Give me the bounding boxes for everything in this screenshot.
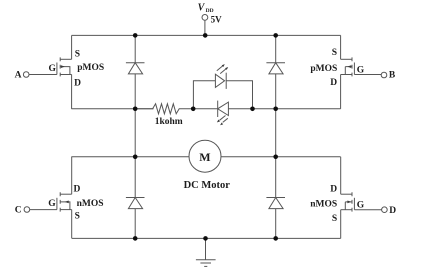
- svg-text:DC Motor: DC Motor: [184, 180, 231, 191]
- label nMOS (left): [77, 199, 104, 209]
- label S (right pMOS): [332, 48, 337, 58]
- wire: gate C to left nMOS: [30, 209, 57, 211]
- label nMOS (right): [310, 199, 337, 209]
- transistor Q1 left pMOS: channel dashes: [59, 57, 61, 76]
- transistor Q1 left pMOS: drain lead: [60, 74, 71, 76]
- transistor Q1 left pMOS: source lead: [60, 58, 71, 60]
- wire: left nMOS drain up to motor rail: [71, 157, 73, 194]
- wire: left pMOS drain down to upper-mid rail: [71, 75, 73, 109]
- transistor Q4 right nMOS: bulk lead with arrow: [345, 201, 352, 210]
- transistor Q1 left pMOS: bulk lead with arrow: [60, 65, 70, 74]
- svg-text:pMOS: pMOS: [310, 64, 337, 74]
- label D (terminal): [389, 206, 396, 216]
- label pMOS (right): [310, 64, 337, 74]
- transistor Q2 left nMOS: channel dashes: [59, 192, 61, 211]
- wire: right branch vertical (top rail to upper diode): [275, 35, 277, 62]
- svg-text:5V: 5V: [211, 14, 223, 24]
- svg-text:B: B: [389, 71, 396, 81]
- wire: bottom ground rail: [72, 237, 341, 239]
- ground symbol: [196, 238, 216, 266]
- label D (right nMOS): [330, 184, 337, 194]
- transistor Q4 right nMOS: channel dashes: [351, 192, 353, 211]
- label D (left pMOS): [74, 79, 81, 89]
- transistor Q2 left nMOS: bulk lead with arrow: [60, 201, 70, 210]
- label B: [389, 71, 396, 81]
- svg-text:S: S: [332, 214, 337, 224]
- svg-text:C: C: [15, 206, 22, 216]
- wire: left branch vertical (top rail to upper diode): [134, 35, 136, 62]
- diode D3 (lower left flyback diode): [126, 198, 145, 209]
- VDD terminal (open circle): [202, 15, 208, 21]
- transistor Q3 right pMOS: drain lead: [341, 74, 352, 76]
- label VDD: [198, 3, 214, 14]
- svg-text:S: S: [75, 49, 80, 59]
- svg-text:D: D: [74, 79, 81, 89]
- label 5V: [211, 14, 223, 24]
- transistor Q4 right nMOS: source lead: [341, 209, 352, 211]
- svg-text:1kohm: 1kohm: [155, 117, 183, 127]
- label G (right pMOS): [357, 65, 365, 75]
- svg-text:G: G: [48, 199, 56, 209]
- svg-text:G: G: [357, 65, 365, 75]
- svg-text:DD: DD: [206, 8, 214, 14]
- wire: left branch vertical (motor rail to lower diode): [134, 157, 136, 198]
- junction dot: VDD on top rail: [203, 33, 208, 38]
- wire: gate A to left pMOS: [29, 74, 57, 76]
- transistor Q4 right nMOS: gate plate: [353, 198, 355, 210]
- label 1kohm: [155, 117, 183, 127]
- transistor Q1 left pMOS: gate plate: [56, 63, 58, 75]
- junction dot: bottom rail right branch: [273, 236, 278, 241]
- LED LED2 (bottom, pointing left, inline): [193, 101, 252, 126]
- transistor Q3 right pMOS: source lead: [341, 58, 352, 60]
- diode D4 (lower right flyback diode): [266, 198, 285, 209]
- wire: right nMOS drain up to motor rail: [340, 157, 342, 194]
- wire: left branch vertical (upper diode to upper-mid rail): [134, 74, 136, 109]
- transistor Q4 right nMOS: drain lead: [341, 193, 352, 195]
- wire: top VDD rail: [72, 34, 341, 36]
- junction dot: motor rail left branch: [133, 155, 138, 160]
- terminal D (open circle): [382, 207, 388, 213]
- diode D2 (upper right flyback diode): [266, 63, 285, 74]
- diode D1 (upper left flyback diode): [126, 63, 145, 74]
- svg-text:D: D: [330, 184, 337, 194]
- transistor Q2 left nMOS: drain lead: [60, 193, 71, 195]
- junction dot: bottom rail ground: [203, 236, 208, 241]
- label S (left nMOS): [75, 211, 80, 221]
- wire: right branch vertical (upper diode to upper-mid rail): [275, 74, 277, 109]
- junction dot: LED right node: [250, 107, 255, 112]
- label A: [15, 71, 22, 81]
- svg-text:A: A: [15, 71, 22, 81]
- motor M1 (DC motor circle): [189, 140, 221, 172]
- terminal C (open circle): [24, 207, 30, 213]
- wire: right branch vertical (upper-mid rail to motor rail): [275, 109, 277, 157]
- wire: upper-mid rail left segment (pMOS drain node to diode junction): [71, 108, 153, 110]
- LED LED1 (top, pointing right): [193, 64, 252, 109]
- svg-text:D: D: [389, 206, 396, 216]
- label G (left nMOS): [48, 199, 56, 209]
- wire: right branch vertical (motor rail to lower diode): [275, 157, 277, 198]
- label G (right nMOS): [357, 201, 365, 211]
- label G (left pMOS): [49, 64, 57, 74]
- svg-text:S: S: [332, 48, 337, 58]
- transistor Q3 right pMOS: gate plate: [353, 63, 355, 75]
- junction dot: resistor/LED node: [191, 107, 196, 112]
- junction dot: top rail left branch: [133, 33, 138, 38]
- wire: right pMOS source to top rail: [340, 35, 342, 59]
- label D (left nMOS): [74, 185, 81, 195]
- svg-text:M: M: [199, 150, 210, 164]
- svg-text:G: G: [49, 64, 57, 74]
- VDD terminal stub: [204, 20, 206, 35]
- label pMOS (left): [77, 63, 104, 73]
- label S (left pMOS): [75, 49, 80, 59]
- wire: gate D to right nMOS: [354, 209, 381, 211]
- transistor Q2 left nMOS: source lead: [60, 209, 71, 211]
- resistor R1 1kohm: [135, 104, 193, 114]
- wire: left nMOS source down to bottom rail: [71, 210, 73, 239]
- junction dot: motor rail right branch: [273, 155, 278, 160]
- wire: right nMOS source down to bottom rail: [340, 210, 342, 239]
- wire: left branch vertical (lower diode to bottom rail): [134, 209, 136, 239]
- svg-text:nMOS: nMOS: [310, 199, 337, 209]
- svg-text:S: S: [75, 211, 80, 221]
- terminal B (open circle): [381, 72, 387, 78]
- svg-text:nMOS: nMOS: [77, 199, 104, 209]
- label DC Motor: [184, 180, 231, 191]
- wire: right pMOS drain down to upper-mid rail: [340, 75, 342, 109]
- wire: left branch vertical (upper-mid rail to motor rail): [134, 109, 136, 157]
- label C: [15, 206, 22, 216]
- svg-text:D: D: [330, 78, 337, 88]
- wire: motor rail right segment: [221, 156, 341, 158]
- junction dot: bottom rail left branch: [133, 236, 138, 241]
- wire: upper-mid rail segment between LED node and right diode junction: [253, 108, 341, 110]
- transistor Q3 right pMOS: channel dashes: [351, 57, 353, 76]
- label D (right pMOS): [330, 78, 337, 88]
- wire: motor rail left segment: [71, 156, 188, 158]
- svg-text:V: V: [198, 3, 206, 14]
- terminal A (open circle): [23, 72, 29, 78]
- svg-text:G: G: [357, 201, 365, 211]
- label M (motor): [199, 150, 210, 164]
- label S (right nMOS): [332, 214, 337, 224]
- transistor Q2 left nMOS: gate plate: [56, 198, 58, 210]
- wire: right branch vertical (lower diode to bottom rail): [275, 209, 277, 239]
- junction dot: upper-mid rail left branch: [133, 107, 138, 112]
- svg-text:pMOS: pMOS: [77, 63, 104, 73]
- wire: gate B to right pMOS: [354, 74, 381, 76]
- junction dot: top rail right branch: [273, 33, 278, 38]
- wire: left pMOS source to top rail: [71, 35, 73, 59]
- transistor Q3 right pMOS: bulk lead with arrow: [345, 65, 352, 74]
- svg-text:D: D: [74, 185, 81, 195]
- junction dot: upper-mid rail right branch: [273, 107, 278, 112]
